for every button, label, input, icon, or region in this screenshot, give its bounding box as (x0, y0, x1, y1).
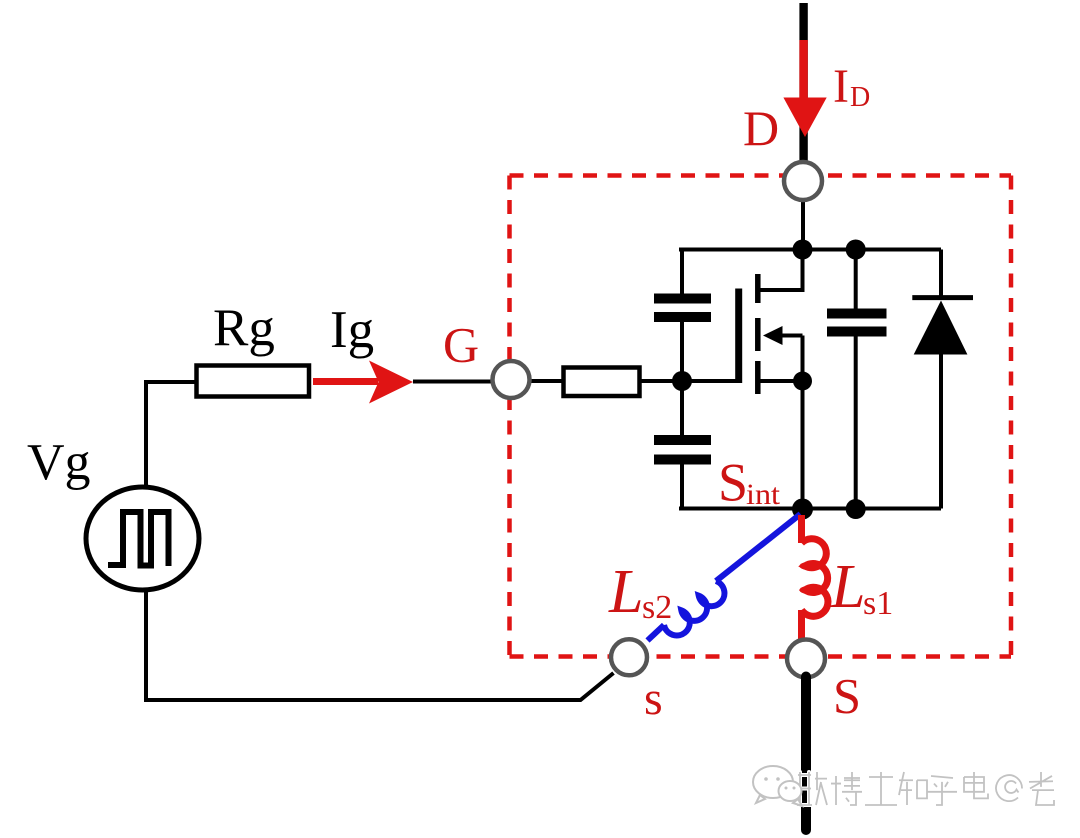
svg-text:I: I (833, 60, 849, 113)
svg-text:S: S (833, 668, 861, 724)
svg-text:Ig: Ig (330, 301, 374, 359)
svg-text:L: L (830, 553, 865, 621)
svg-text:s: s (644, 672, 663, 725)
svg-text:s1: s1 (863, 585, 893, 622)
svg-text:D: D (743, 100, 779, 156)
svg-text:Vg: Vg (27, 434, 91, 491)
svg-text:s2: s2 (642, 589, 672, 626)
svg-text:D: D (850, 82, 870, 113)
svg-text:L: L (608, 558, 643, 626)
svg-text:int: int (746, 478, 781, 511)
svg-text:G: G (443, 317, 479, 373)
svg-text:S: S (718, 453, 748, 513)
svg-text:Rg: Rg (213, 299, 275, 357)
